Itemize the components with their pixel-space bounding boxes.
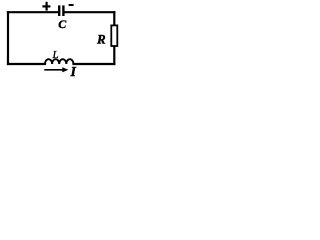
svg-text:C: C [58,17,67,31]
svg-text:L: L [51,49,58,61]
svg-text:R: R [96,31,106,46]
svg-text:I: I [69,65,76,80]
